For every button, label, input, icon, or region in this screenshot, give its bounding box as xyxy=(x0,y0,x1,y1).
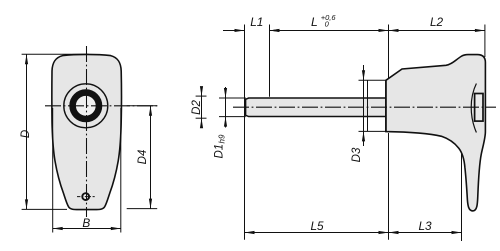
dimension L2 xyxy=(389,29,485,32)
dimension B xyxy=(53,108,121,233)
svg-text:D1: D1 xyxy=(214,144,226,159)
svg-text:L3: L3 xyxy=(418,219,432,233)
dimension L1 xyxy=(223,29,290,32)
push button on grip end xyxy=(475,94,483,122)
svg-text:B: B xyxy=(82,216,90,230)
svg-text:D4: D4 xyxy=(137,150,149,165)
dimension L with tolerance xyxy=(270,29,389,32)
svg-text:L1: L1 xyxy=(250,15,263,29)
dimension L5 xyxy=(245,231,389,234)
grip ring black annulus xyxy=(73,93,99,119)
pin axis centerline xyxy=(233,106,496,108)
svg-text:D: D xyxy=(20,130,32,138)
small hole at grip bottom xyxy=(82,193,89,200)
svg-text:D3: D3 xyxy=(351,147,363,162)
dimension D xyxy=(22,54,89,209)
svg-text:h9: h9 xyxy=(218,134,227,143)
svg-text:D2: D2 xyxy=(191,100,203,115)
label D1 h9 xyxy=(214,134,227,158)
extension line at grip leg xyxy=(461,153,463,241)
vertical centerline of front view xyxy=(86,46,88,217)
grip hub face line xyxy=(385,80,387,132)
grip hub projection line xyxy=(367,80,369,131)
extension line at grip face top xyxy=(388,25,390,80)
grip ring inner disc xyxy=(75,95,96,116)
extension line at grip right face xyxy=(484,25,486,58)
dimension D2 xyxy=(196,86,207,128)
svg-text:L5: L5 xyxy=(310,219,324,233)
small hole horizontal center mark xyxy=(77,196,95,198)
grip front view outline (egg shape) xyxy=(52,54,122,209)
svg-text:L: L xyxy=(311,15,318,29)
dimension D1 h9 xyxy=(219,87,246,128)
extension line at grip face bottom xyxy=(388,133,390,240)
horizontal centerline of front view xyxy=(45,105,157,107)
extension line at pin tip xyxy=(244,25,246,240)
extension line at L1 end xyxy=(269,25,271,97)
dimension D4 xyxy=(127,106,158,209)
grip side view outline xyxy=(386,55,486,211)
pin shaft body xyxy=(246,98,386,117)
grip face inner contour arc xyxy=(471,84,476,133)
dimension L3 xyxy=(389,231,462,234)
grip ring hole outer circle xyxy=(64,84,108,128)
svg-text:L2: L2 xyxy=(430,15,444,29)
dimension D3 xyxy=(359,65,386,146)
